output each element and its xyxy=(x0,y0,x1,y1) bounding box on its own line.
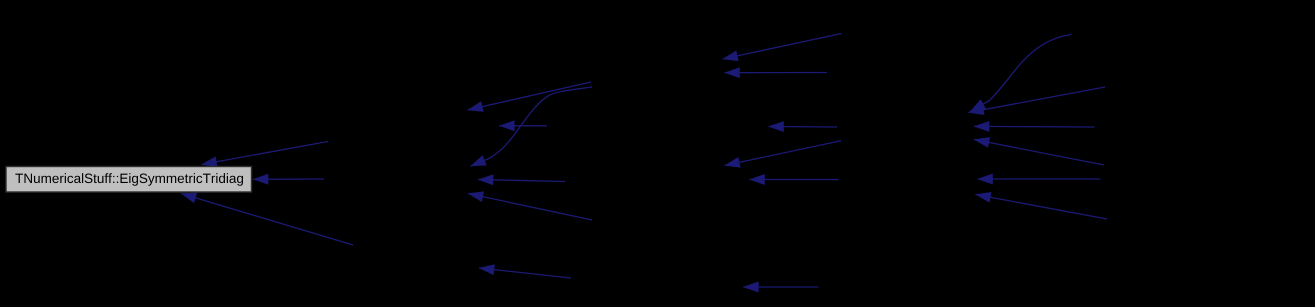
wire col4 mid slanted xyxy=(974,140,1104,166)
wire col2 lower slanted xyxy=(468,194,592,221)
wire col3 top horizontal xyxy=(725,72,828,74)
wire col2 S-curve xyxy=(471,87,593,166)
wire col4 top slanted xyxy=(969,87,1106,113)
wire col4 bottom slanted xyxy=(976,195,1108,220)
wire col2 mid horizontal xyxy=(478,180,565,182)
wire col3 lower horizontal xyxy=(750,179,839,181)
wire col4 upper horizontal xyxy=(974,125,1095,128)
wire col2 upper slanted xyxy=(468,82,592,110)
node TNumericalStuff::EigSymmetricTridiag xyxy=(6,167,252,193)
wire into node box right xyxy=(253,178,324,180)
wire col3 mid horizontal xyxy=(769,126,838,129)
wire col3 top slanted xyxy=(723,34,842,60)
wire col4 top curve xyxy=(970,35,1072,112)
wire col3 bottom horizontal xyxy=(743,286,818,288)
wire into node box bottom xyxy=(181,194,353,246)
wire into node box top xyxy=(202,142,329,165)
wire col2 short horizontal xyxy=(499,125,547,127)
wire col3 mid slanted xyxy=(725,141,842,166)
wire col4 lower horizontal xyxy=(978,178,1101,180)
wire col2 bottom slanted xyxy=(479,268,571,278)
